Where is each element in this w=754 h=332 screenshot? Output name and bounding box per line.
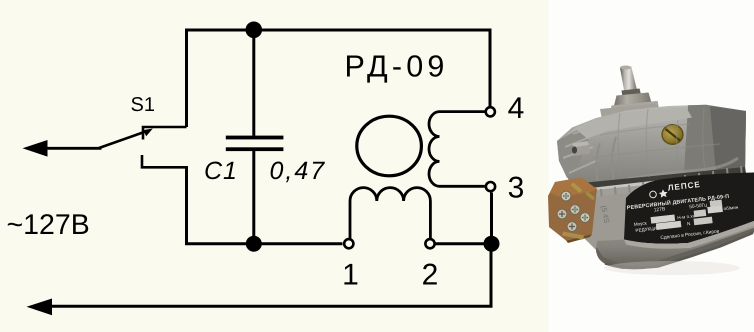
switch S1 lever <box>99 131 147 148</box>
arrowhead upper source lead <box>23 140 48 157</box>
svg-text:~127В: ~127В <box>7 209 90 241</box>
svg-text:4: 4 <box>508 92 525 125</box>
wire: left vertical lower (switch to bottom branch) <box>185 166 188 245</box>
rotor of motor РД-09 <box>357 116 422 176</box>
cast texture lines on gearbox <box>592 108 720 177</box>
shaft <box>620 67 638 96</box>
svg-text:C1: C1 <box>204 157 238 185</box>
junction: top node dot <box>246 22 263 39</box>
collar <box>613 93 653 111</box>
svg-text:1: 1 <box>342 258 359 291</box>
terminal block <box>548 178 597 244</box>
gearbox top face <box>563 107 692 148</box>
wire: terminal 2 to junction <box>436 242 492 245</box>
wire: terminal 4 to top rail <box>489 29 492 107</box>
AC line wire to source (upper) <box>45 147 102 150</box>
terminal 4 <box>486 107 495 116</box>
svg-text:0,47: 0,47 <box>270 157 327 185</box>
capacitor C1 plates <box>226 136 284 140</box>
junction: node dot right <box>484 236 500 252</box>
wire: top rail node A <box>185 29 490 32</box>
left body below block area <box>578 192 632 254</box>
lower flange <box>0 0 1 1</box>
wire: bottom rail to source <box>49 305 493 308</box>
svg-text:2: 2 <box>422 258 439 291</box>
wire: junction down to bottom rail <box>490 244 493 307</box>
switch S1 lower contact <box>142 155 187 167</box>
terminal 3 <box>486 182 495 191</box>
wire: capacitor bottom lead <box>252 151 255 244</box>
terminal 2 <box>425 239 434 248</box>
wire: bottom branch rail to terminal 1 <box>185 242 343 245</box>
wire: left vertical upper (to switch upper contact) <box>185 29 188 128</box>
winding 3-4 (stator winding vertical) <box>429 112 485 187</box>
arrowhead lower source lead <box>27 299 53 316</box>
svg-text:S1: S1 <box>131 94 155 116</box>
switch S1 upper contact <box>143 127 187 140</box>
svg-text:РД-09: РД-09 <box>345 50 449 84</box>
wire: terminal 3 to junction <box>490 193 493 244</box>
soft ground shade <box>604 261 740 275</box>
terminal 1 <box>344 239 353 248</box>
label plate <box>624 173 754 244</box>
gearbox left shading <box>557 130 589 178</box>
winding 1-2 (stator winding) <box>350 188 430 239</box>
wire: capacitor top lead <box>252 30 255 136</box>
svg-text:3: 3 <box>508 172 525 205</box>
brass screw on top <box>662 125 683 145</box>
gearbox housing <box>557 105 746 185</box>
body neck ring <box>576 173 754 206</box>
svg-text:N: N <box>687 221 691 226</box>
seam under gearbox <box>571 167 746 190</box>
gearbox right shadow side <box>684 105 746 174</box>
small brass screw right <box>722 177 731 183</box>
collar mounting pad <box>600 104 660 125</box>
left pin <box>573 141 591 156</box>
junction: bottom capacitor node dot <box>246 236 262 252</box>
